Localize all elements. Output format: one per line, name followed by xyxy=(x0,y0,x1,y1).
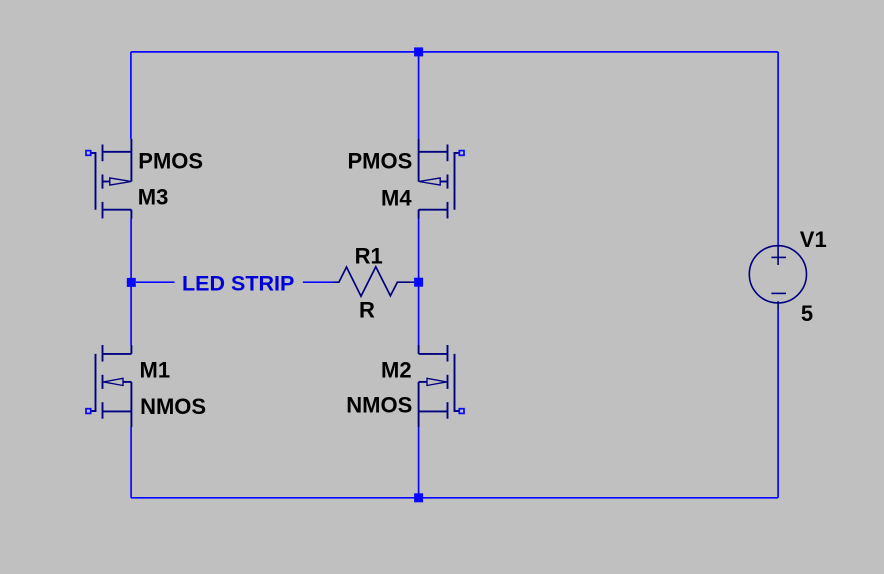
label V1 xyxy=(800,227,827,252)
wire left column middle (M3 source to M1 drain through LED node) xyxy=(130,219,132,346)
junction top rail / middle column xyxy=(414,47,423,56)
svg-text:LED STRIP: LED STRIP xyxy=(182,272,294,296)
svg-text:5: 5 xyxy=(801,301,813,326)
transistor M3 (PMOS, left top) xyxy=(91,139,131,219)
pin square gate of M2 xyxy=(459,409,464,414)
transistor M2 (NMOS, middle bottom, mirrored) xyxy=(419,345,459,427)
svg-text:R: R xyxy=(359,298,375,323)
transistor M1 (NMOS, left bottom) xyxy=(91,345,131,427)
wire right column lower (V1 minus to bottom rail) xyxy=(777,311,779,498)
wire right column upper (top rail to V1 plus) xyxy=(777,52,779,246)
svg-text:PMOS: PMOS xyxy=(348,149,413,174)
svg-text:NMOS: NMOS xyxy=(346,392,412,417)
label R1 xyxy=(355,243,383,268)
transistor M4 (PMOS, middle top, mirrored) xyxy=(419,139,459,219)
pin square gate of M4 xyxy=(459,151,464,156)
svg-text:M4: M4 xyxy=(381,185,412,210)
svg-text:V1: V1 xyxy=(800,227,827,252)
svg-text:M3: M3 xyxy=(138,185,169,210)
node LED STRIP net label xyxy=(182,272,294,296)
label M2 xyxy=(381,358,412,383)
label M1 xyxy=(140,357,171,382)
wire middle column middle (M4 source to M2 drain) xyxy=(418,219,420,346)
label M3 xyxy=(138,185,169,210)
wire middle column lower (M2 source to bottom rail) xyxy=(418,427,420,498)
svg-text:R1: R1 xyxy=(355,243,383,268)
pin square gate of M1 xyxy=(86,409,91,414)
label R value of R1 xyxy=(359,298,375,323)
wire top rail xyxy=(131,51,778,53)
wire left column upper (top rail to M3 drain) xyxy=(130,52,132,139)
svg-text:M1: M1 xyxy=(140,357,171,382)
wire bottom rail xyxy=(131,497,778,499)
junction LED node on left column xyxy=(127,278,136,287)
svg-text:NMOS: NMOS xyxy=(140,394,206,419)
svg-text:M2: M2 xyxy=(381,358,412,383)
pin square gate of M3 xyxy=(86,151,91,156)
wire middle column upper (top rail to M4 drain) xyxy=(418,52,420,139)
label PMOS of M4 xyxy=(348,149,413,174)
label 5 value of V1 xyxy=(801,301,813,326)
junction resistor output on middle column xyxy=(414,278,423,287)
wire middle net from label to resistor R1 xyxy=(303,281,333,283)
wire middle net from LED node junction to label xyxy=(136,281,175,283)
junction bottom rail / middle column xyxy=(414,493,423,502)
svg-text:PMOS: PMOS xyxy=(138,148,203,173)
resistor R1 xyxy=(333,267,414,296)
wire left column lower (M1 source to bottom rail) xyxy=(130,427,132,498)
label NMOS of M2 xyxy=(346,392,412,417)
label M4 xyxy=(381,185,412,210)
label PMOS of M3 xyxy=(138,148,203,173)
label NMOS of M1 xyxy=(140,394,206,419)
voltage source V1 xyxy=(749,246,806,311)
